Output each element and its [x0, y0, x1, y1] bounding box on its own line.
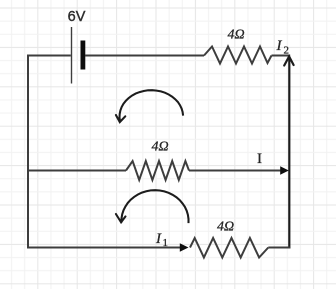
wire: top right segment: [272, 55, 291, 57]
svg-text:I: I: [257, 151, 262, 167]
svg-text:2: 2: [284, 45, 290, 57]
svg-text:4Ω: 4Ω: [151, 140, 168, 155]
svg-text:I: I: [276, 38, 283, 54]
wire: bottom left segment: [27, 247, 181, 249]
mesh arrow lower loop head: [116, 214, 126, 222]
battery B1 short thick terminal: [81, 41, 86, 70]
arrow I2 head (up): [284, 57, 293, 66]
wire: bottom right segment: [268, 247, 290, 249]
wire: middle right segment (arrow I shaft): [189, 170, 282, 172]
mesh arrow upper loop arc: [120, 90, 184, 121]
svg-text:4Ω: 4Ω: [227, 28, 244, 43]
svg-text:I: I: [155, 231, 162, 247]
resistor 4ohm middle zigzag: [126, 161, 189, 180]
arrow I2 shaft: right vertical wire: [288, 57, 290, 249]
wire: top middle segment: [85, 55, 204, 57]
svg-text:4Ω: 4Ω: [217, 220, 234, 235]
wire: left vertical: [27, 55, 29, 249]
arrow I head (right, filled): [280, 166, 289, 175]
wire: middle left segment: [28, 170, 126, 172]
arrow I1 head (right, filled): [180, 243, 189, 251]
svg-text:1: 1: [163, 237, 169, 249]
mesh arrow upper loop head: [116, 115, 125, 122]
wire: top left segment: [27, 55, 71, 57]
resistor 4ohm top zigzag: [204, 47, 272, 64]
resistor 4ohm bottom zigzag: [190, 238, 268, 258]
mesh arrow lower loop arc: [121, 190, 188, 223]
battery B1 long terminal: [71, 27, 73, 84]
svg-text:6V: 6V: [68, 9, 86, 25]
